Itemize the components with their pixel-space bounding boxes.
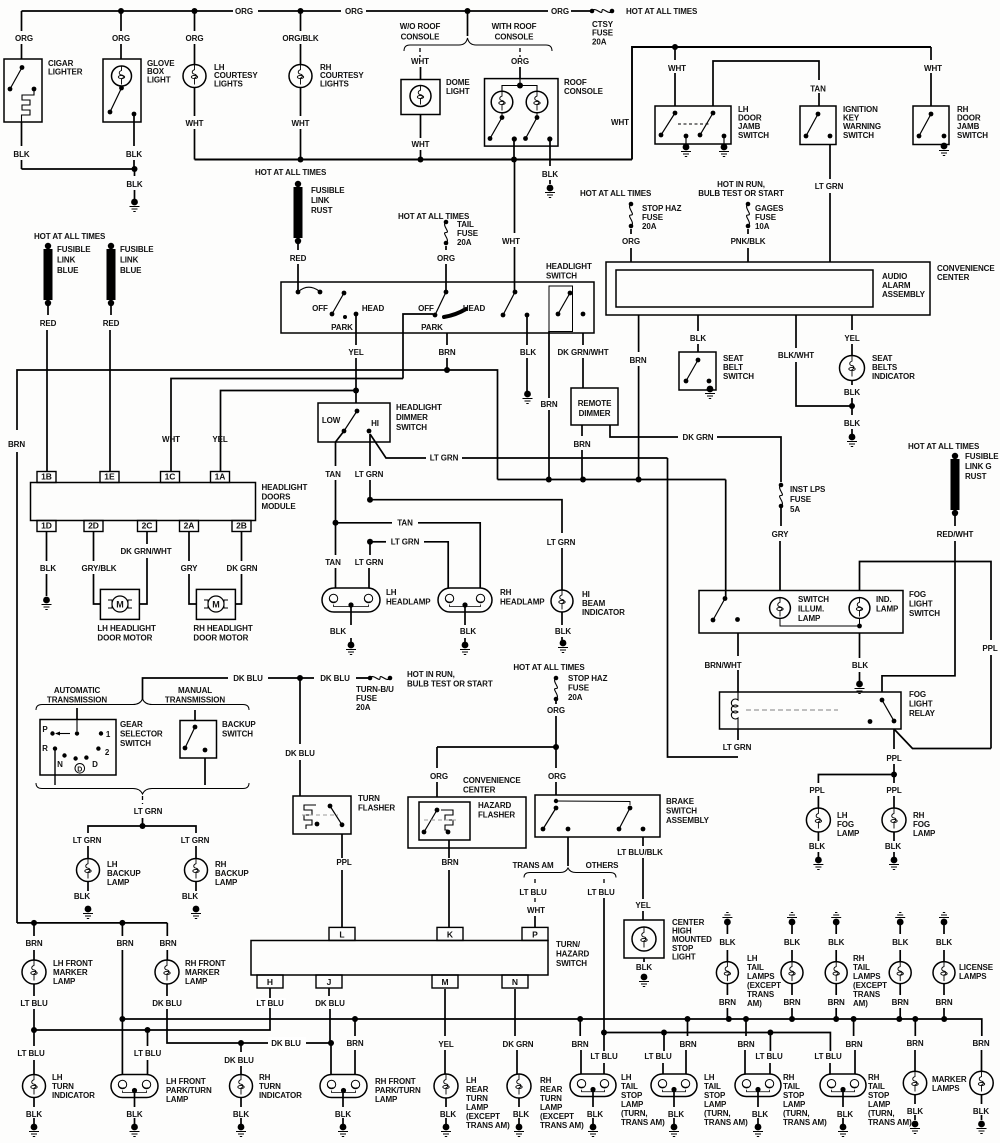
- svg-text:LAMP: LAMP: [53, 977, 76, 986]
- svg-text:(TURN,: (TURN,: [704, 1109, 731, 1118]
- wire YEL line to 1A: [221, 391, 357, 472]
- svg-text:BRN: BRN: [828, 998, 845, 1007]
- dashed link LH door jamb: [678, 123, 710, 125]
- svg-text:LAMPS: LAMPS: [959, 972, 987, 981]
- wire LT GRN dimmer hi down: [369, 434, 371, 466]
- svg-text:WHT: WHT: [611, 118, 629, 127]
- wire ind lamp stub: [859, 619, 861, 627]
- ground cigar/glove: [130, 199, 140, 212]
- svg-text:BLK: BLK: [126, 150, 142, 159]
- svg-text:TRANSMISSION: TRANSMISSION: [47, 696, 107, 705]
- svg-text:HOT AT ALL TIMES: HOT AT ALL TIMES: [34, 232, 106, 241]
- lamp fog indicator: [849, 598, 870, 619]
- wire BLK chmsl: [643, 958, 645, 962]
- svg-text:BLK: BLK: [892, 938, 908, 947]
- wire BLK marker 1: [914, 1095, 916, 1104]
- svg-text:(EXCEPT: (EXCEPT: [466, 1112, 500, 1121]
- junction YEL / 1A line: [353, 388, 359, 394]
- junction seat belts gnd: [849, 403, 855, 409]
- ground RH tail lamp 1: [831, 913, 841, 926]
- contact N: [62, 753, 66, 757]
- svg-text:HEADLIGHT: HEADLIGHT: [262, 483, 308, 492]
- wire ORG fuse to junction: [555, 716, 557, 747]
- svg-text:LT GRN: LT GRN: [181, 836, 210, 845]
- wire LT GRN backup split: [88, 826, 196, 833]
- svg-text:BEAM: BEAM: [582, 599, 606, 608]
- terminal seat belt gnd: [707, 379, 712, 384]
- svg-text:BACKUP: BACKUP: [222, 720, 256, 729]
- svg-text:FOG: FOG: [909, 690, 926, 699]
- switch inside glove box: [108, 86, 124, 115]
- svg-text:FUSE: FUSE: [568, 684, 590, 693]
- svg-text:RH: RH: [783, 1073, 795, 1082]
- svg-text:BLK: BLK: [40, 564, 56, 573]
- wire roof console internal feed: [502, 79, 537, 92]
- wire RH door jamb WHT drop: [930, 47, 932, 60]
- wire LH door jamb WHT drop: [674, 47, 676, 60]
- wire BLK fog ind lamp: [859, 633, 861, 658]
- wire BLK seat belts indicator: [851, 381, 853, 386]
- LH front park/turn lamp: [111, 1075, 158, 1098]
- LH headlight door motor box: [100, 589, 139, 619]
- svg-text:BRN: BRN: [438, 348, 455, 357]
- junction LH courtesy drop: [192, 8, 198, 14]
- wire PPL to RH fog lamp: [893, 775, 895, 784]
- svg-text:DK GRN: DK GRN: [503, 1040, 534, 1049]
- svg-text:P: P: [532, 929, 538, 939]
- junction LH park feed: [119, 920, 125, 926]
- svg-text:MODULE: MODULE: [262, 502, 297, 511]
- svg-text:TRANS AM): TRANS AM): [466, 1121, 510, 1130]
- lamp marker 2: [970, 1071, 993, 1094]
- svg-text:FUSE: FUSE: [592, 29, 614, 38]
- wire LT BLU to S1 b: [603, 1063, 605, 1074]
- svg-text:2C: 2C: [142, 521, 153, 531]
- svg-text:RH: RH: [868, 1073, 880, 1082]
- wire RED stub into switch: [297, 282, 299, 292]
- wire LT GRN hi beam branch: [370, 500, 562, 533]
- wire BRN to LH front marker: [33, 923, 35, 936]
- wire cigar lighter ORG drop: [21, 11, 23, 31]
- svg-text:INDICATOR: INDICATOR: [582, 608, 625, 617]
- svg-text:LIGHT: LIGHT: [909, 700, 933, 709]
- audio alarm assembly box: [616, 270, 873, 307]
- RH door jamb switch box: [913, 106, 949, 145]
- junction LT GRN RH headlamp branch: [367, 539, 373, 545]
- svg-text:TURN-B/U: TURN-B/U: [356, 685, 394, 694]
- switch brake arm 2: [617, 806, 633, 832]
- svg-text:ROOF: ROOF: [564, 78, 587, 87]
- wire roof console BLK out: [549, 139, 551, 166]
- svg-text:LT GRN: LT GRN: [815, 182, 844, 191]
- svg-text:TURN: TURN: [466, 1094, 488, 1103]
- terminal LH door jamb gnd 2: [722, 134, 727, 139]
- wire BRN to marker lamp 1: [914, 1019, 916, 1036]
- ground S2: [669, 1124, 679, 1137]
- wire DK BLU to RH turn indicator: [240, 1043, 242, 1052]
- RH headlamp: [438, 588, 492, 612]
- junction TAN RH headlamp branch: [333, 520, 339, 526]
- svg-text:LAMP: LAMP: [621, 1100, 644, 1109]
- svg-text:LH: LH: [837, 811, 848, 820]
- wire BLK LH tail lamp 2 b: [791, 950, 793, 962]
- svg-text:LICENSE: LICENSE: [959, 963, 994, 972]
- junction tail lamp 5: [941, 1016, 947, 1022]
- wire WHT park feed line: [171, 379, 403, 472]
- wire LH jamb gnd stub 1: [685, 136, 687, 145]
- svg-text:2B: 2B: [236, 521, 247, 531]
- fuse STOP HAZ FUSE 20A upper: [629, 202, 634, 229]
- svg-text:ALARM: ALARM: [882, 281, 911, 290]
- svg-text:DOME: DOME: [446, 78, 470, 87]
- svg-text:TRANS: TRANS: [853, 990, 881, 999]
- wire TAN door jamb to ignition switch: [713, 61, 819, 106]
- wire BLK to seat belt switch: [697, 315, 699, 331]
- fuse CTSY FUSE 20A: [590, 9, 615, 14]
- LH tail stop lamp 1: [570, 1074, 616, 1097]
- svg-text:TRANS AM): TRANS AM): [621, 1118, 665, 1127]
- terminal brake out 2: [641, 827, 646, 832]
- svg-text:MARKER: MARKER: [53, 968, 88, 977]
- svg-text:LH: LH: [747, 954, 758, 963]
- contact relay NC: [868, 719, 873, 724]
- svg-text:HAZARD: HAZARD: [478, 801, 511, 810]
- svg-text:SWITCH: SWITCH: [396, 423, 427, 432]
- wire dashed LT GRN backup: [142, 796, 144, 804]
- svg-text:DK BLU: DK BLU: [285, 749, 315, 758]
- svg-text:TURN: TURN: [540, 1094, 562, 1103]
- svg-text:LAMP: LAMP: [540, 1103, 563, 1112]
- svg-text:N: N: [57, 760, 63, 769]
- contact 2: [96, 746, 100, 750]
- svg-text:INDICATOR: INDICATOR: [259, 1091, 302, 1100]
- svg-text:TURN: TURN: [358, 794, 380, 803]
- svg-text:DK BLU: DK BLU: [315, 999, 345, 1008]
- switch RH door jamb arm: [917, 112, 934, 139]
- ground RH front park/turn: [338, 1124, 348, 1137]
- wire LT BLU S4 upper: [829, 1046, 831, 1051]
- lamp LH tail lamp 2: [781, 962, 803, 984]
- wire GRY to fog light switch: [780, 508, 782, 526]
- svg-text:BLK: BLK: [335, 1110, 351, 1119]
- wire WHT riser to door jambs: [632, 47, 931, 160]
- hazard flasher box: [419, 802, 470, 840]
- junction LH marker: [31, 920, 37, 926]
- svg-text:LT BLU: LT BLU: [590, 1052, 618, 1061]
- connector K: [437, 927, 463, 940]
- wire LT BLU/BLK brake to CHMSL: [642, 837, 644, 846]
- circled D indicator: [75, 764, 85, 774]
- svg-text:SWITCH: SWITCH: [666, 807, 697, 816]
- wire PPL ind lamp feed: [860, 562, 992, 641]
- bulb dome light: [410, 86, 431, 107]
- svg-text:LT GRN: LT GRN: [547, 538, 576, 547]
- svg-text:FUSE: FUSE: [356, 694, 378, 703]
- wire BLK to ground: [134, 169, 136, 176]
- svg-text:DK BLU: DK BLU: [271, 1039, 301, 1048]
- svg-text:CONSOLE: CONSOLE: [564, 87, 604, 96]
- wire LT GRN relay coil down: [737, 729, 739, 740]
- wire WHT roof console to headlight switch: [514, 160, 516, 234]
- svg-text:BLK: BLK: [233, 1110, 249, 1119]
- wire BLK gang3 to ground: [526, 315, 528, 345]
- svg-text:LH: LH: [704, 1073, 715, 1082]
- ignition key warning switch box: [800, 106, 836, 145]
- svg-text:INST LPS: INST LPS: [790, 485, 826, 494]
- svg-text:LH: LH: [386, 588, 397, 597]
- svg-text:BULB TEST OR START: BULB TEST OR START: [407, 679, 493, 688]
- ground LH door jamb 2: [719, 144, 729, 157]
- ground fog light switch: [855, 681, 865, 694]
- wire BLK hi beam indicator: [561, 612, 563, 625]
- svg-text:SEAT: SEAT: [723, 354, 744, 363]
- ground LH door jamb 1: [681, 144, 691, 157]
- svg-text:PNK/BLK: PNK/BLK: [731, 237, 766, 246]
- wire BRN park to rheostat return: [447, 370, 498, 480]
- junction tail lamp 4: [896, 1016, 902, 1022]
- junction backup lamps: [140, 823, 146, 829]
- svg-text:RED: RED: [40, 319, 57, 328]
- svg-text:LT BLU: LT BLU: [134, 1049, 162, 1058]
- svg-text:1B: 1B: [41, 472, 52, 482]
- remote dimmer box: [571, 388, 618, 425]
- terminal LH door jamb gnd 1: [684, 134, 689, 139]
- svg-text:WHT: WHT: [162, 435, 180, 444]
- connector N: [502, 975, 528, 988]
- svg-text:STOP: STOP: [868, 1091, 890, 1100]
- svg-text:TAIL: TAIL: [853, 963, 870, 972]
- wire WHT interior bus: [195, 159, 633, 161]
- wire LT BLU H gap: [255, 998, 286, 1008]
- roof console box: [485, 79, 559, 147]
- wire BLK S3: [757, 1090, 759, 1107]
- RH tail stop lamp 2: [820, 1074, 866, 1097]
- svg-text:INDICATOR: INDICATOR: [872, 372, 915, 381]
- center high mounted stop light box: [624, 920, 664, 958]
- wire LT BLU bus D: [604, 1033, 830, 1047]
- svg-text:LH: LH: [621, 1073, 632, 1082]
- svg-text:RUST: RUST: [965, 472, 987, 481]
- svg-text:LAMP: LAMP: [375, 1095, 398, 1104]
- brace transmissions bottom: [36, 783, 249, 794]
- svg-text:YEL: YEL: [635, 901, 650, 910]
- svg-text:LT GRN: LT GRN: [355, 470, 384, 479]
- svg-text:LT GRN: LT GRN: [73, 836, 102, 845]
- svg-text:REAR: REAR: [540, 1085, 563, 1094]
- wire ORG tail fuse to headlight switch: [445, 246, 447, 250]
- svg-text:TURN/: TURN/: [556, 940, 581, 949]
- junction hi beam branch: [367, 497, 373, 503]
- svg-text:ORG: ORG: [551, 7, 569, 16]
- svg-text:BRN: BRN: [906, 1039, 923, 1048]
- fuse TAIL FUSE 20A: [444, 220, 449, 246]
- wire LT GRN dimmer to fog relay line: [370, 434, 426, 458]
- connector 1D: [37, 521, 56, 532]
- wire DK BLU bus: [143, 678, 229, 700]
- svg-text:HOT IN RUN,: HOT IN RUN,: [407, 670, 455, 679]
- svg-text:LT BLU: LT BLU: [17, 1049, 45, 1058]
- svg-text:W/O ROOF: W/O ROOF: [400, 22, 441, 31]
- svg-text:ILLUM.: ILLUM.: [798, 605, 824, 614]
- wire BRN bus A corner to marker 2: [944, 1019, 982, 1032]
- dashed link hazard: [424, 819, 458, 821]
- svg-text:L: L: [339, 929, 344, 939]
- ground LH backup: [83, 906, 93, 919]
- svg-text:INDICATOR: INDICATOR: [52, 1091, 95, 1100]
- svg-text:BRN: BRN: [972, 1039, 989, 1048]
- svg-text:TAN: TAN: [325, 470, 341, 479]
- wire roof console WHT out: [513, 139, 515, 160]
- svg-text:R: R: [42, 744, 48, 753]
- wire dome light WHT down: [420, 115, 422, 139]
- svg-text:BLK: BLK: [542, 170, 558, 179]
- switch gang4 arm: [556, 291, 573, 317]
- svg-text:BLK: BLK: [330, 627, 346, 636]
- svg-text:LT BLU/BLK: LT BLU/BLK: [617, 848, 663, 857]
- wire backup switch output: [204, 758, 206, 785]
- lamp LH fog: [806, 808, 830, 832]
- wire BRN LH tail lamp 1: [726, 984, 728, 995]
- contact dimmer HI: [367, 429, 372, 434]
- wire LH courtesy ORG drop: [194, 11, 196, 31]
- fusible link G rust: [951, 453, 960, 516]
- svg-text:BRN: BRN: [679, 1040, 696, 1049]
- svg-text:DOORS: DOORS: [262, 493, 292, 502]
- svg-text:OFF: OFF: [418, 304, 434, 313]
- svg-text:SWITCH: SWITCH: [222, 730, 253, 739]
- wire BRN remote dimmer down: [581, 425, 583, 436]
- svg-text:BLK: BLK: [26, 1110, 42, 1119]
- svg-text:BRN: BRN: [783, 998, 800, 1007]
- junction tail lamp 1: [726, 1016, 732, 1022]
- svg-text:TAIL: TAIL: [621, 1082, 638, 1091]
- ground S4: [838, 1124, 848, 1137]
- svg-text:BLK: BLK: [809, 842, 825, 851]
- svg-text:BACKUP: BACKUP: [107, 869, 141, 878]
- turn flasher box: [293, 796, 351, 834]
- wire gear selector feed: [76, 708, 78, 720]
- junction tail lamp 2: [789, 1016, 795, 1022]
- svg-text:BLK: BLK: [837, 1110, 853, 1119]
- wire BLK LH park/turn: [134, 1091, 136, 1107]
- svg-text:HOT AT ALL TIMES: HOT AT ALL TIMES: [908, 442, 980, 451]
- svg-text:ORG: ORG: [112, 34, 130, 43]
- brace console alternatives: [404, 38, 552, 51]
- svg-text:BLK: BLK: [636, 963, 652, 972]
- svg-text:(EXCEPT: (EXCEPT: [853, 981, 887, 990]
- wire LT BLU to S3: [769, 1033, 771, 1052]
- svg-text:DIMMER: DIMMER: [579, 409, 611, 418]
- ground seat belts indicator: [847, 434, 857, 447]
- wire LT BLU S4 lower: [829, 1063, 831, 1074]
- ground RH rear turn: [514, 1124, 524, 1137]
- svg-text:FUSIBLE: FUSIBLE: [311, 186, 345, 195]
- svg-text:TAIL: TAIL: [747, 963, 764, 972]
- wire BRN to S3: [745, 1019, 747, 1036]
- svg-text:(EXCEPT: (EXCEPT: [540, 1112, 574, 1121]
- svg-text:BRN: BRN: [540, 400, 557, 409]
- headlight switch box: [281, 282, 594, 333]
- connector 1B: [37, 472, 56, 483]
- ground seat belt switch: [705, 386, 715, 399]
- svg-text:ORG: ORG: [548, 772, 566, 781]
- wire LT GRN to RH headlamp: [370, 541, 386, 543]
- svg-text:LAMPS: LAMPS: [747, 972, 775, 981]
- svg-text:LIGHTS: LIGHTS: [214, 79, 243, 88]
- LH headlamp: [322, 588, 380, 612]
- switch relay contact arm: [880, 698, 897, 724]
- svg-text:BLK: BLK: [13, 150, 29, 159]
- ground headlight switch: [523, 391, 533, 404]
- svg-text:REMOTE: REMOTE: [578, 399, 612, 408]
- switch brake arm 1: [554, 799, 630, 805]
- switch backup arm: [183, 725, 198, 751]
- svg-text:SWITCH: SWITCH: [556, 959, 587, 968]
- svg-text:TAN: TAN: [397, 519, 413, 528]
- lamp RH backup: [185, 859, 208, 882]
- wire GRY/BLK 2D to LH motor: [93, 532, 95, 562]
- svg-text:BLK: BLK: [907, 1107, 923, 1116]
- svg-text:WHT: WHT: [668, 64, 686, 73]
- svg-text:CTSY: CTSY: [592, 20, 614, 29]
- svg-text:LINK: LINK: [311, 196, 330, 205]
- LH tail stop lamp 2: [651, 1074, 697, 1097]
- svg-text:M: M: [441, 977, 448, 987]
- wire glove box ORG drop: [120, 11, 122, 31]
- svg-text:BRAKE: BRAKE: [666, 797, 695, 806]
- svg-text:FUSIBLE: FUSIBLE: [965, 452, 999, 461]
- svg-text:RED/WHT: RED/WHT: [937, 530, 974, 539]
- dome light box: [401, 80, 440, 115]
- svg-text:HOT AT ALL TIMES: HOT AT ALL TIMES: [626, 7, 698, 16]
- wire YEL headlight switch to dimmer: [355, 314, 357, 345]
- wire gear selector internal: [76, 720, 78, 732]
- junction marker 1: [912, 1016, 918, 1022]
- wire GRY 2A to RH motor: [188, 532, 190, 562]
- svg-text:BLK: BLK: [719, 938, 735, 947]
- svg-text:TAN: TAN: [325, 558, 341, 567]
- svg-text:(EXCEPT: (EXCEPT: [747, 981, 781, 990]
- svg-text:ASSEMBLY: ASSEMBLY: [666, 816, 710, 825]
- svg-text:BLK: BLK: [126, 180, 142, 189]
- svg-text:M: M: [116, 600, 124, 610]
- switch LH door jamb arm 2: [698, 111, 716, 138]
- wire BLK LH tail lamp 1 b: [726, 950, 728, 962]
- svg-text:LIGHTER: LIGHTER: [48, 68, 83, 77]
- junction RH park feed: [352, 1016, 358, 1022]
- wire BRN park riser: [121, 923, 123, 936]
- svg-text:LAMP: LAMP: [798, 614, 821, 623]
- svg-text:LAMPS: LAMPS: [853, 972, 881, 981]
- svg-text:LT GRN: LT GRN: [391, 538, 420, 547]
- svg-text:WHT: WHT: [412, 140, 430, 149]
- svg-text:WHT: WHT: [527, 906, 545, 915]
- wire gang2 park jumper: [403, 314, 433, 379]
- wire BRN bus: [498, 479, 726, 481]
- svg-text:RH: RH: [540, 1076, 552, 1085]
- wire BLK RH tail lamp 1: [835, 925, 837, 934]
- svg-text:LT GRN: LT GRN: [430, 454, 459, 463]
- relay coil: [731, 692, 738, 729]
- junction roof console to WHT bus: [511, 157, 517, 163]
- ground RH door jamb: [939, 143, 949, 156]
- svg-text:BRN: BRN: [25, 939, 42, 948]
- svg-text:WHT: WHT: [502, 237, 520, 246]
- svg-text:BLK: BLK: [182, 892, 198, 901]
- junction BRN S1: [577, 1016, 583, 1022]
- junction BRN park bus A: [119, 1016, 125, 1022]
- svg-text:AUDIO: AUDIO: [882, 272, 907, 281]
